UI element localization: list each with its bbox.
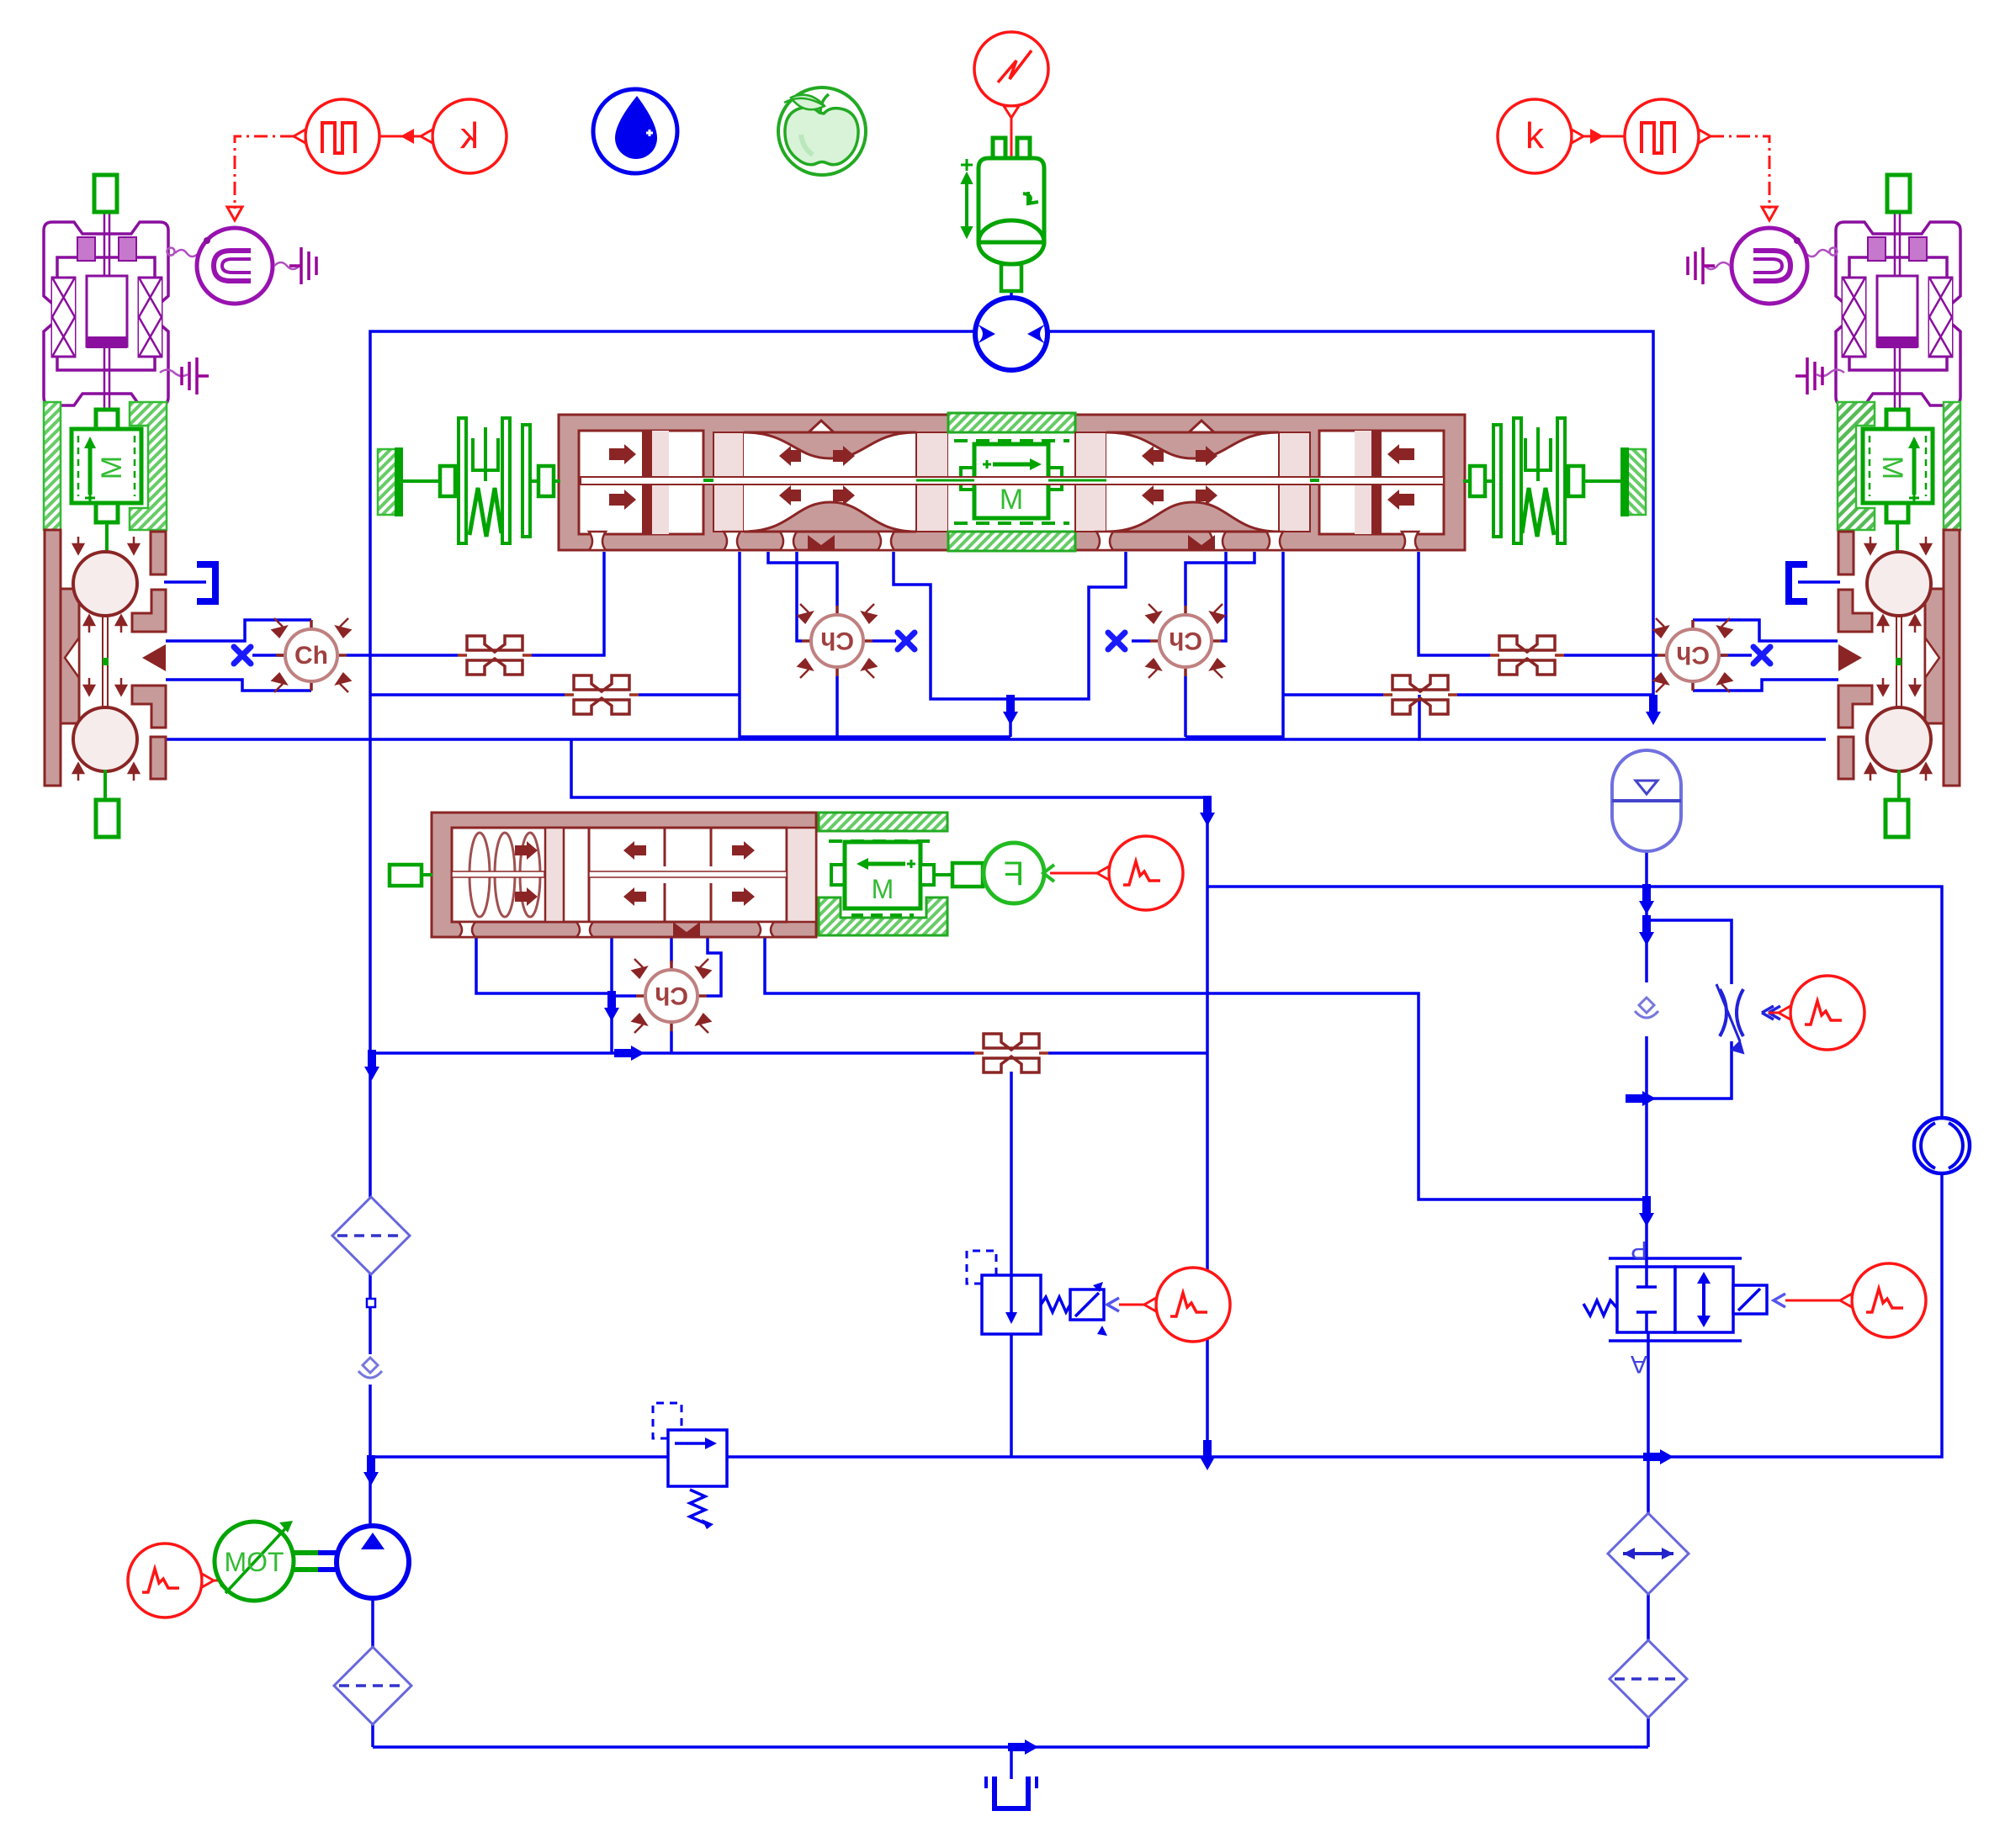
wire: Ch2 X stub [873,639,896,643]
signal source top center [974,32,1048,158]
junction: bypass top [1639,915,1654,945]
wire: Ch3 bottom net [1184,676,1187,737]
wire: line B right with orifice O3 [1283,693,1383,696]
wire: left nozzle upper to Ch1 top [166,620,311,641]
ground at torque motor left [182,357,209,394]
plug X at Ch4 [1753,647,1770,664]
filter bottom left [334,1647,411,1724]
wire: line A right with orifice O4 to Ch4 [1419,552,1490,655]
chamber Ch2 [798,604,876,678]
wire: Ch2 bottom net [740,552,1010,737]
torque motor right [1798,214,1960,432]
mass block M center [961,468,974,490]
wire: left flapper plug line [164,580,206,584]
wire: H bridge under valve center [894,552,1126,699]
chamber Ch3 [1147,604,1224,678]
left piston chamber [579,431,703,534]
check valve inline [1635,998,1658,1018]
green port at lower valve spring [390,865,422,886]
wire: Ch5 bottom to pilot line [670,1031,673,1053]
wire: left lower nozzle long line [151,738,1419,741]
wire: line to 2-2 valve from lower valve [765,937,1647,1268]
junction: bottom line left [363,1455,379,1485]
svg-text:M: M [1000,484,1023,516]
svg-text:k: k [1525,115,1545,156]
chamber Ch1 [273,618,350,692]
chamber Ch4 [1654,618,1732,692]
orifice O2 [565,675,639,714]
plugged port bracket right [1789,564,1807,601]
hydraulic pump top [975,298,1048,370]
signal source square wave right [1625,99,1711,173]
right piston chamber [1319,431,1444,534]
plugged port bracket left [197,564,215,601]
red dash-dot link left [235,136,294,209]
wire: Ch2 left port from valve [797,552,802,641]
hydraulic pump bottom [337,1526,409,1598]
wire: 2-2 valve to flow sensor to filter to tank line [1647,1332,1650,1518]
gain k right [1498,99,1624,173]
2-2 directional valve [1583,1236,1785,1378]
main spool valve body [559,413,1465,551]
EM converter circle right [1705,228,1807,304]
spring damper right [1463,418,1646,543]
signal source at throttle [1769,976,1864,1050]
wire: right nozzle upper to Ch4 top [1693,620,1838,641]
mass block M right stack [1838,402,1960,552]
variable throttle bypass [1716,984,1780,1053]
junction: bypass bottom [1626,1091,1656,1106]
wire: right nozzle lower to Ch4 bottom [1693,680,1838,691]
junction: H-bridge center [1003,695,1018,725]
lower valve green side [819,813,947,935]
electric motor [961,138,1044,291]
plug X at Ch2 [898,633,915,649]
junction: pilot line Ch5 [614,1046,644,1061]
orifice O5 pilot [974,1034,1048,1072]
svg-text:F: F [1004,855,1024,892]
svg-text:M: M [96,456,128,479]
left venturi section [713,432,744,532]
center mass section [948,432,1075,532]
wavy link to converter [167,248,175,256]
EM converter circle left [197,228,300,304]
wire: pilot relief feed [1010,1072,1013,1275]
filter left top [332,1197,410,1274]
wire: bottom main line [373,1455,668,1459]
ground at converter left [289,247,316,284]
wire: pilot line with orifice O5 [370,1051,974,1055]
motor MOT [215,1521,340,1601]
wire: left nozzle lower to Ch1 bottom [166,680,311,691]
wire: Ch5 left stub [612,994,636,998]
chamber Ch5 [633,959,710,1033]
signal source at 2-2 valve [1785,1263,1926,1337]
flow rate sensor [1608,1513,1689,1594]
wire: pump shaft hydraulic stub [1010,290,1013,304]
green anchor port top left [94,175,117,212]
wire: bypass check branch [1645,887,1648,982]
signal source at F [1050,836,1183,910]
wire: left supply column segments [369,1271,372,1300]
signal source at pilot relief [1119,1268,1230,1342]
svg-text:k: k [459,115,479,156]
wire: Ch3 top jog [1185,552,1254,606]
lower pilot spool valve [432,813,816,937]
svg-text:MOT: MOT [224,1547,284,1577]
junction: J3 [1639,1196,1654,1226]
junction: lower valve jog [604,991,619,1021]
wire: Ch5 top stub [670,937,673,963]
right venturi section [1075,432,1106,532]
junction: pilot line left [364,1050,379,1080]
wire: tank stub [1010,1747,1013,1779]
accumulator [1612,750,1681,851]
wire: top pressure line left [370,331,975,1200]
svg-text:M: M [1876,456,1908,479]
mass block M left stack [44,402,167,552]
wire: Ch1 right to orifice O1 to valve [347,654,458,657]
wire: lower valve second port vertical [610,937,613,1053]
wire: Ch4 X stub [1719,654,1752,657]
BLUEWIRES [151,290,1942,1779]
green anchor port bottom left [96,800,119,837]
check valve left column [358,1358,382,1378]
junction: tank line [1008,1739,1038,1755]
wire: Ch3 X stub [1132,639,1150,643]
ball valve circle [1914,1118,1970,1173]
orifice O3 [1383,675,1457,714]
wire: top pressure line right [1048,331,1653,695]
svg-text:A: A [1631,1350,1647,1378]
orifice O1 [458,636,532,675]
spring damper left [378,418,560,543]
wire: Ch5 right jog [707,937,721,996]
wavy link to ground low [160,370,188,377]
wire: lower valve left port jog [476,937,612,993]
wire: line B left with orifice O2 [370,693,565,696]
junction: bottom line right [1643,1449,1673,1464]
signal source at motor [128,1544,236,1618]
bottom notches [589,532,1419,550]
apple icon [778,87,866,175]
small volume node [367,1299,375,1307]
ground at converter right [1688,247,1715,284]
wire: right lower nozzle line [1419,695,1826,739]
junction: bottom line mid [1200,1440,1215,1470]
plug X at Ch1 [234,647,251,664]
pilot relief valve [967,1251,1119,1336]
junction: nozzle line corner [1200,796,1215,826]
red dash-dot link right [1711,136,1769,209]
svg-text:M: M [872,874,894,904]
green anchor port bottom right [1886,800,1908,837]
torque motor left [44,214,206,432]
force source F [934,843,1054,903]
svg-text:P: P [1631,1236,1647,1263]
tank [995,1777,1028,1808]
fluid drop icon [593,89,677,173]
junction: line B right corner [1646,695,1661,725]
flapper nozzle assembly left [45,530,166,800]
plug X at Ch3 [1108,633,1125,649]
green anchor port top right [1887,175,1910,212]
signal source square wave left [294,99,379,173]
gain k left (mirrored) [380,99,507,173]
wire: right flapper plug line [1798,580,1840,584]
wire: Ch3 right port from valve [1221,552,1226,641]
ground at torque motor right [1795,357,1822,394]
main relief valve [653,1403,727,1529]
wire: Ch2 top jog [768,552,837,606]
flapper nozzle assembly right [1838,530,1960,800]
spool rod [581,477,1444,485]
filter bottom right [1610,1640,1687,1718]
wire: Ch1 X stub [252,654,285,657]
wire: accumulator branch line [1645,850,1648,887]
junction: accumulator tee [1639,884,1654,914]
orifice O4 [1490,636,1564,675]
